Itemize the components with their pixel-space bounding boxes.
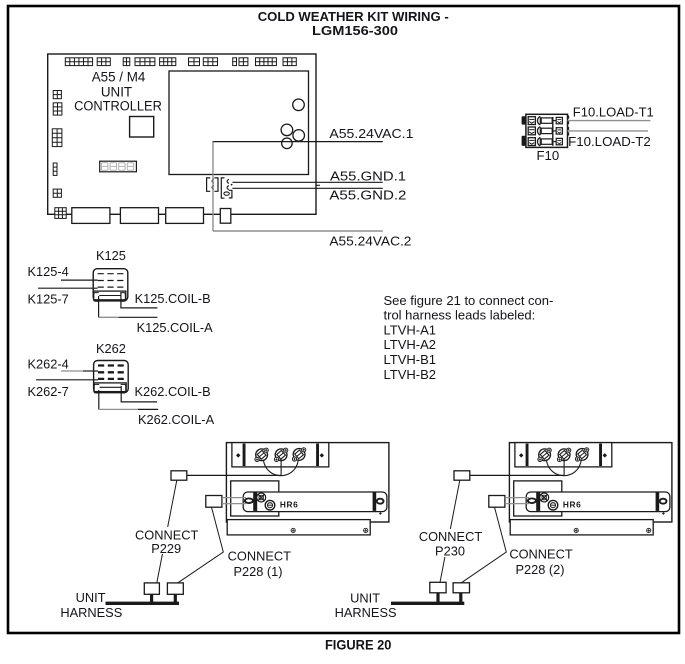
leader P228(2) [461, 507, 506, 583]
wire P228(2) lead a (gray) [505, 497, 529, 499]
svg-text:F10.LOAD-T2: F10.LOAD-T2 [568, 134, 651, 149]
relay K125 body [93, 269, 128, 301]
svg-text:LTVH-A1: LTVH-A1 [384, 322, 437, 337]
connector J9 [239, 58, 248, 66]
wire A55.24VAC.1 [212, 141, 382, 143]
svg-text:LTVH-A2: LTVH-A2 [384, 337, 437, 352]
svg-text:F10.LOAD-T1: F10.LOAD-T1 [573, 105, 654, 120]
connector J5 [160, 58, 176, 66]
bottom terminal block TB1 [72, 208, 110, 224]
svg-text:UNIT: UNIT [350, 591, 380, 606]
leader P229 [157, 480, 177, 583]
bottom terminal block TB3 [166, 208, 204, 224]
note: see figure 21 [384, 293, 554, 382]
wire K125.COIL-A [98, 296, 100, 317]
wire A55.24VAC.2 (gray) [213, 230, 383, 232]
board label A55 / M4 UNIT CONTROLLER [74, 70, 162, 114]
harness stub D [459, 593, 462, 605]
svg-text:A55 / M4: A55 / M4 [92, 70, 146, 85]
svg-text:See figure 21 to connect con-: See figure 21 to connect con- [384, 293, 554, 308]
svg-text:LGM156-300: LGM156-300 [312, 23, 398, 38]
dash mark [316, 184, 320, 186]
7-segment display DS1 [100, 161, 137, 172]
bottom connector TB4 [220, 209, 231, 224]
leader P230 [440, 480, 460, 582]
wire K262-4 [61, 370, 83, 372]
wire P228(2) lead b (gray) [505, 503, 529, 505]
svg-text:K262.COIL-B: K262.COIL-B [135, 384, 211, 399]
unit harness plug C [430, 582, 446, 593]
board inner module [169, 71, 309, 175]
harness stub B [174, 594, 177, 604]
board A55 outline [48, 54, 316, 214]
svg-text:CONNECT: CONNECT [228, 549, 291, 564]
mounting hole H3 [293, 130, 305, 142]
wire F10.LOAD-T1 (gray) [568, 120, 651, 122]
relay K262 contact bar [94, 383, 126, 393]
wire K262.COIL-B [121, 386, 157, 402]
svg-text:COLD WEATHER KIT WIRING -: COLD WEATHER KIT WIRING - [258, 9, 449, 24]
connector P230 box [454, 471, 470, 480]
svg-text:K125.COIL-B: K125.COIL-B [135, 291, 211, 306]
plug P2 (GND pins) [221, 178, 232, 198]
svg-text:K125: K125 [96, 248, 126, 263]
relay K125 contact bar [94, 291, 126, 301]
connector P228(1) box [206, 496, 222, 508]
unit harness plug B [167, 583, 183, 594]
harness stub A [150, 594, 153, 604]
connector J15 [53, 163, 57, 175]
label CONNECT P230 [416, 529, 485, 559]
plug P1 (24VAC pins) [207, 178, 218, 191]
wire K262-7 [36, 379, 98, 381]
wire riser (gray) to P1 [212, 142, 214, 231]
svg-text:A55.GND.1: A55.GND.1 [330, 168, 406, 183]
connector J4 [135, 58, 155, 66]
svg-text:UNIT: UNIT [101, 84, 132, 99]
harness cable right [391, 602, 464, 605]
relay K262 body [94, 361, 129, 393]
connector J1 [65, 58, 92, 66]
wire K125-4 [61, 279, 98, 281]
svg-text:K262-4: K262-4 [28, 356, 69, 371]
wire P228(1) lead b (gray) [222, 503, 246, 505]
unit harness plug D [453, 583, 469, 593]
wire P230 to terminals [470, 474, 564, 476]
connector P229 box [171, 471, 187, 480]
svg-text:P229: P229 [151, 541, 181, 556]
svg-text:K262-7: K262-7 [28, 384, 69, 399]
svg-text:UNIT: UNIT [76, 590, 106, 605]
IC U1 [130, 117, 154, 138]
mounting hole H1 [293, 99, 305, 111]
wire P229 to terminals [187, 474, 281, 476]
wire A55.GND.1 [232, 181, 382, 183]
svg-text:P228 (2): P228 (2) [515, 562, 564, 577]
svg-text:CONNECT: CONNECT [509, 547, 572, 562]
connector J2 [97, 58, 110, 66]
label CONNECT P228 (1) [226, 549, 292, 580]
svg-text:K262: K262 [96, 341, 126, 356]
svg-text:A55.24VAC.2: A55.24VAC.2 [329, 233, 411, 248]
svg-text:F10: F10 [537, 148, 560, 163]
connector J11 [283, 58, 296, 66]
label CONNECT P228 (2) [508, 547, 574, 578]
label UNIT HARNESS (left) [60, 590, 122, 620]
svg-text:P230: P230 [435, 544, 465, 559]
connector J13 [53, 103, 62, 115]
connector P228(2) box [489, 496, 505, 508]
leader P228(1) [178, 507, 224, 583]
svg-text:A55.GND.2: A55.GND.2 [329, 188, 406, 203]
connector J7 [203, 58, 217, 66]
connector J10 [256, 58, 277, 66]
svg-text:K262.COIL-A: K262.COIL-A [138, 412, 215, 427]
wire A55.GND.2 [232, 187, 382, 189]
svg-text:CONNECT: CONNECT [419, 529, 482, 544]
svg-text:LTVH-B2: LTVH-B2 [384, 367, 437, 382]
wire F10.LOAD-T2 (gray) [568, 130, 649, 132]
svg-text:K125-4: K125-4 [28, 264, 69, 279]
connector J8 [233, 58, 237, 66]
wire K262.COIL-A [98, 390, 100, 409]
connector J12 [53, 91, 61, 99]
junction dot [231, 184, 233, 186]
label UNIT HARNESS (right) [335, 591, 397, 620]
svg-text:K125-7: K125-7 [28, 291, 69, 306]
mounting hole H4 [282, 138, 293, 149]
connector J16 [53, 189, 61, 197]
heater assembly 2 [509, 443, 672, 535]
fuse block F10 [522, 114, 569, 147]
svg-text:FIGURE 20: FIGURE 20 [325, 638, 392, 653]
connector J14 [52, 129, 62, 147]
svg-text:LTVH-B1: LTVH-B1 [384, 352, 437, 367]
svg-text:HARNESS: HARNESS [60, 605, 122, 620]
svg-text:CONNECT: CONNECT [135, 527, 198, 542]
bottom terminal block TB2 [120, 208, 158, 224]
wire P228(1) lead a (gray) [222, 497, 246, 499]
svg-text:CONTROLLER: CONTROLLER [74, 99, 162, 114]
label CONNECT P229 [132, 527, 201, 556]
unit harness plug A [144, 583, 159, 594]
heater assembly 1 [226, 443, 389, 535]
svg-text:P228 (1): P228 (1) [233, 564, 282, 579]
svg-text:K125.COIL-A: K125.COIL-A [137, 320, 214, 335]
harness cable [106, 602, 180, 605]
connector J3 [123, 58, 130, 66]
fuse bus bar [552, 117, 554, 146]
connector J6 [189, 58, 200, 66]
svg-text:trol harness leads labeled:: trol harness leads labeled: [384, 308, 536, 323]
wire K125.COIL-B [121, 293, 157, 308]
mounting hole H2 [281, 124, 293, 136]
connector J17 [55, 208, 66, 219]
dashed edge [568, 116, 570, 138]
svg-text:HARNESS: HARNESS [335, 605, 397, 620]
svg-text:A55.24VAC.1: A55.24VAC.1 [329, 126, 413, 141]
harness stub C [436, 593, 439, 605]
wire K125-7 [38, 287, 98, 289]
